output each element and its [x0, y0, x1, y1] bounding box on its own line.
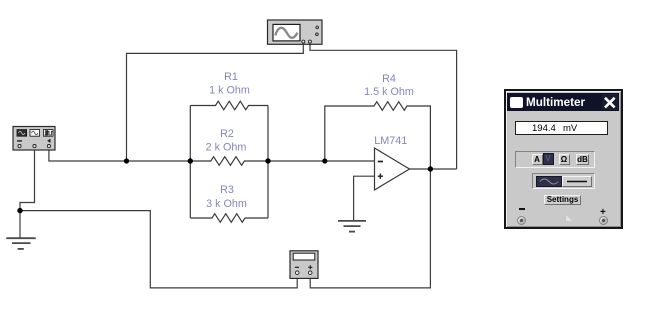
resistor R2	[190, 157, 268, 166]
svg-text:LM741: LM741	[374, 135, 407, 147]
resistor R1	[190, 101, 268, 110]
junction node: ground net	[17, 208, 22, 213]
minus label	[519, 208, 525, 210]
multimeter icon XMM1	[290, 251, 318, 279]
panel - terminal	[517, 216, 526, 225]
display readout 194.4 mV	[515, 121, 608, 135]
small corner mark	[566, 215, 572, 221]
resistor R4 feedback with wires	[325, 102, 431, 169]
svg-text:R2: R2	[220, 128, 234, 140]
wire: op-amp + input to ground	[354, 176, 375, 220]
button dB	[576, 154, 589, 165]
wire: oscilloscope B terminal right and down to output net	[310, 44, 457, 170]
ground GND2	[338, 221, 366, 232]
mode button group	[515, 151, 595, 168]
wire: input bus to parallel network	[127, 160, 191, 162]
svg-text:R3: R3	[220, 184, 234, 196]
svg-text:2 k Ohm: 2 k Ohm	[206, 141, 247, 153]
button Ohm	[559, 154, 570, 165]
wire: function generator + terminal to input bus	[49, 148, 127, 162]
junction node: input bus / scope A	[124, 158, 129, 163]
svg-text:1.5 k Ohm: 1.5 k Ohm	[364, 86, 414, 98]
AC button (pressed)	[536, 176, 562, 187]
wire: function generator common down to ground node	[20, 148, 35, 211]
svg-text:R4: R4	[382, 73, 396, 85]
AC/DC group	[532, 173, 595, 189]
ground GND1	[6, 238, 35, 249]
plus label	[600, 207, 606, 218]
multimeter panel window	[504, 89, 623, 229]
junction node: op-amp output	[428, 166, 433, 171]
svg-text:3 k Ohm: 3 k Ohm	[206, 198, 247, 210]
op-amp U1 LM741	[374, 135, 409, 190]
junction node: feedback / inverting input	[322, 158, 327, 163]
button V (pressed)	[543, 153, 554, 165]
panel + terminal	[599, 216, 608, 225]
function generator XFG1	[13, 127, 55, 151]
oscilloscope XSC1	[268, 20, 323, 44]
wire: op-amp output to node	[410, 168, 457, 170]
junction node: network left	[188, 158, 193, 163]
Settings button	[544, 195, 581, 205]
title bar icon	[510, 97, 523, 108]
wire: output node down to multimeter + terminal	[310, 169, 430, 288]
svg-text:1 k Ohm: 1 k Ohm	[209, 85, 250, 97]
close button	[602, 94, 618, 110]
title bar	[507, 93, 619, 111]
title text	[526, 96, 585, 109]
wire: network to op-amp inverting input	[268, 160, 375, 162]
wire: oscilloscope A terminal down-left to input node	[127, 44, 304, 162]
resistor network frame right side	[267, 106, 269, 219]
resistor network frame left side	[189, 106, 191, 219]
DC button	[562, 176, 592, 187]
button A	[532, 154, 543, 165]
wire: ground node to ground	[19, 211, 21, 238]
junction node: network right	[265, 158, 270, 163]
svg-text:R1: R1	[224, 71, 238, 83]
resistor R3	[190, 214, 268, 223]
wire: ground node to multimeter - terminal	[20, 211, 297, 288]
